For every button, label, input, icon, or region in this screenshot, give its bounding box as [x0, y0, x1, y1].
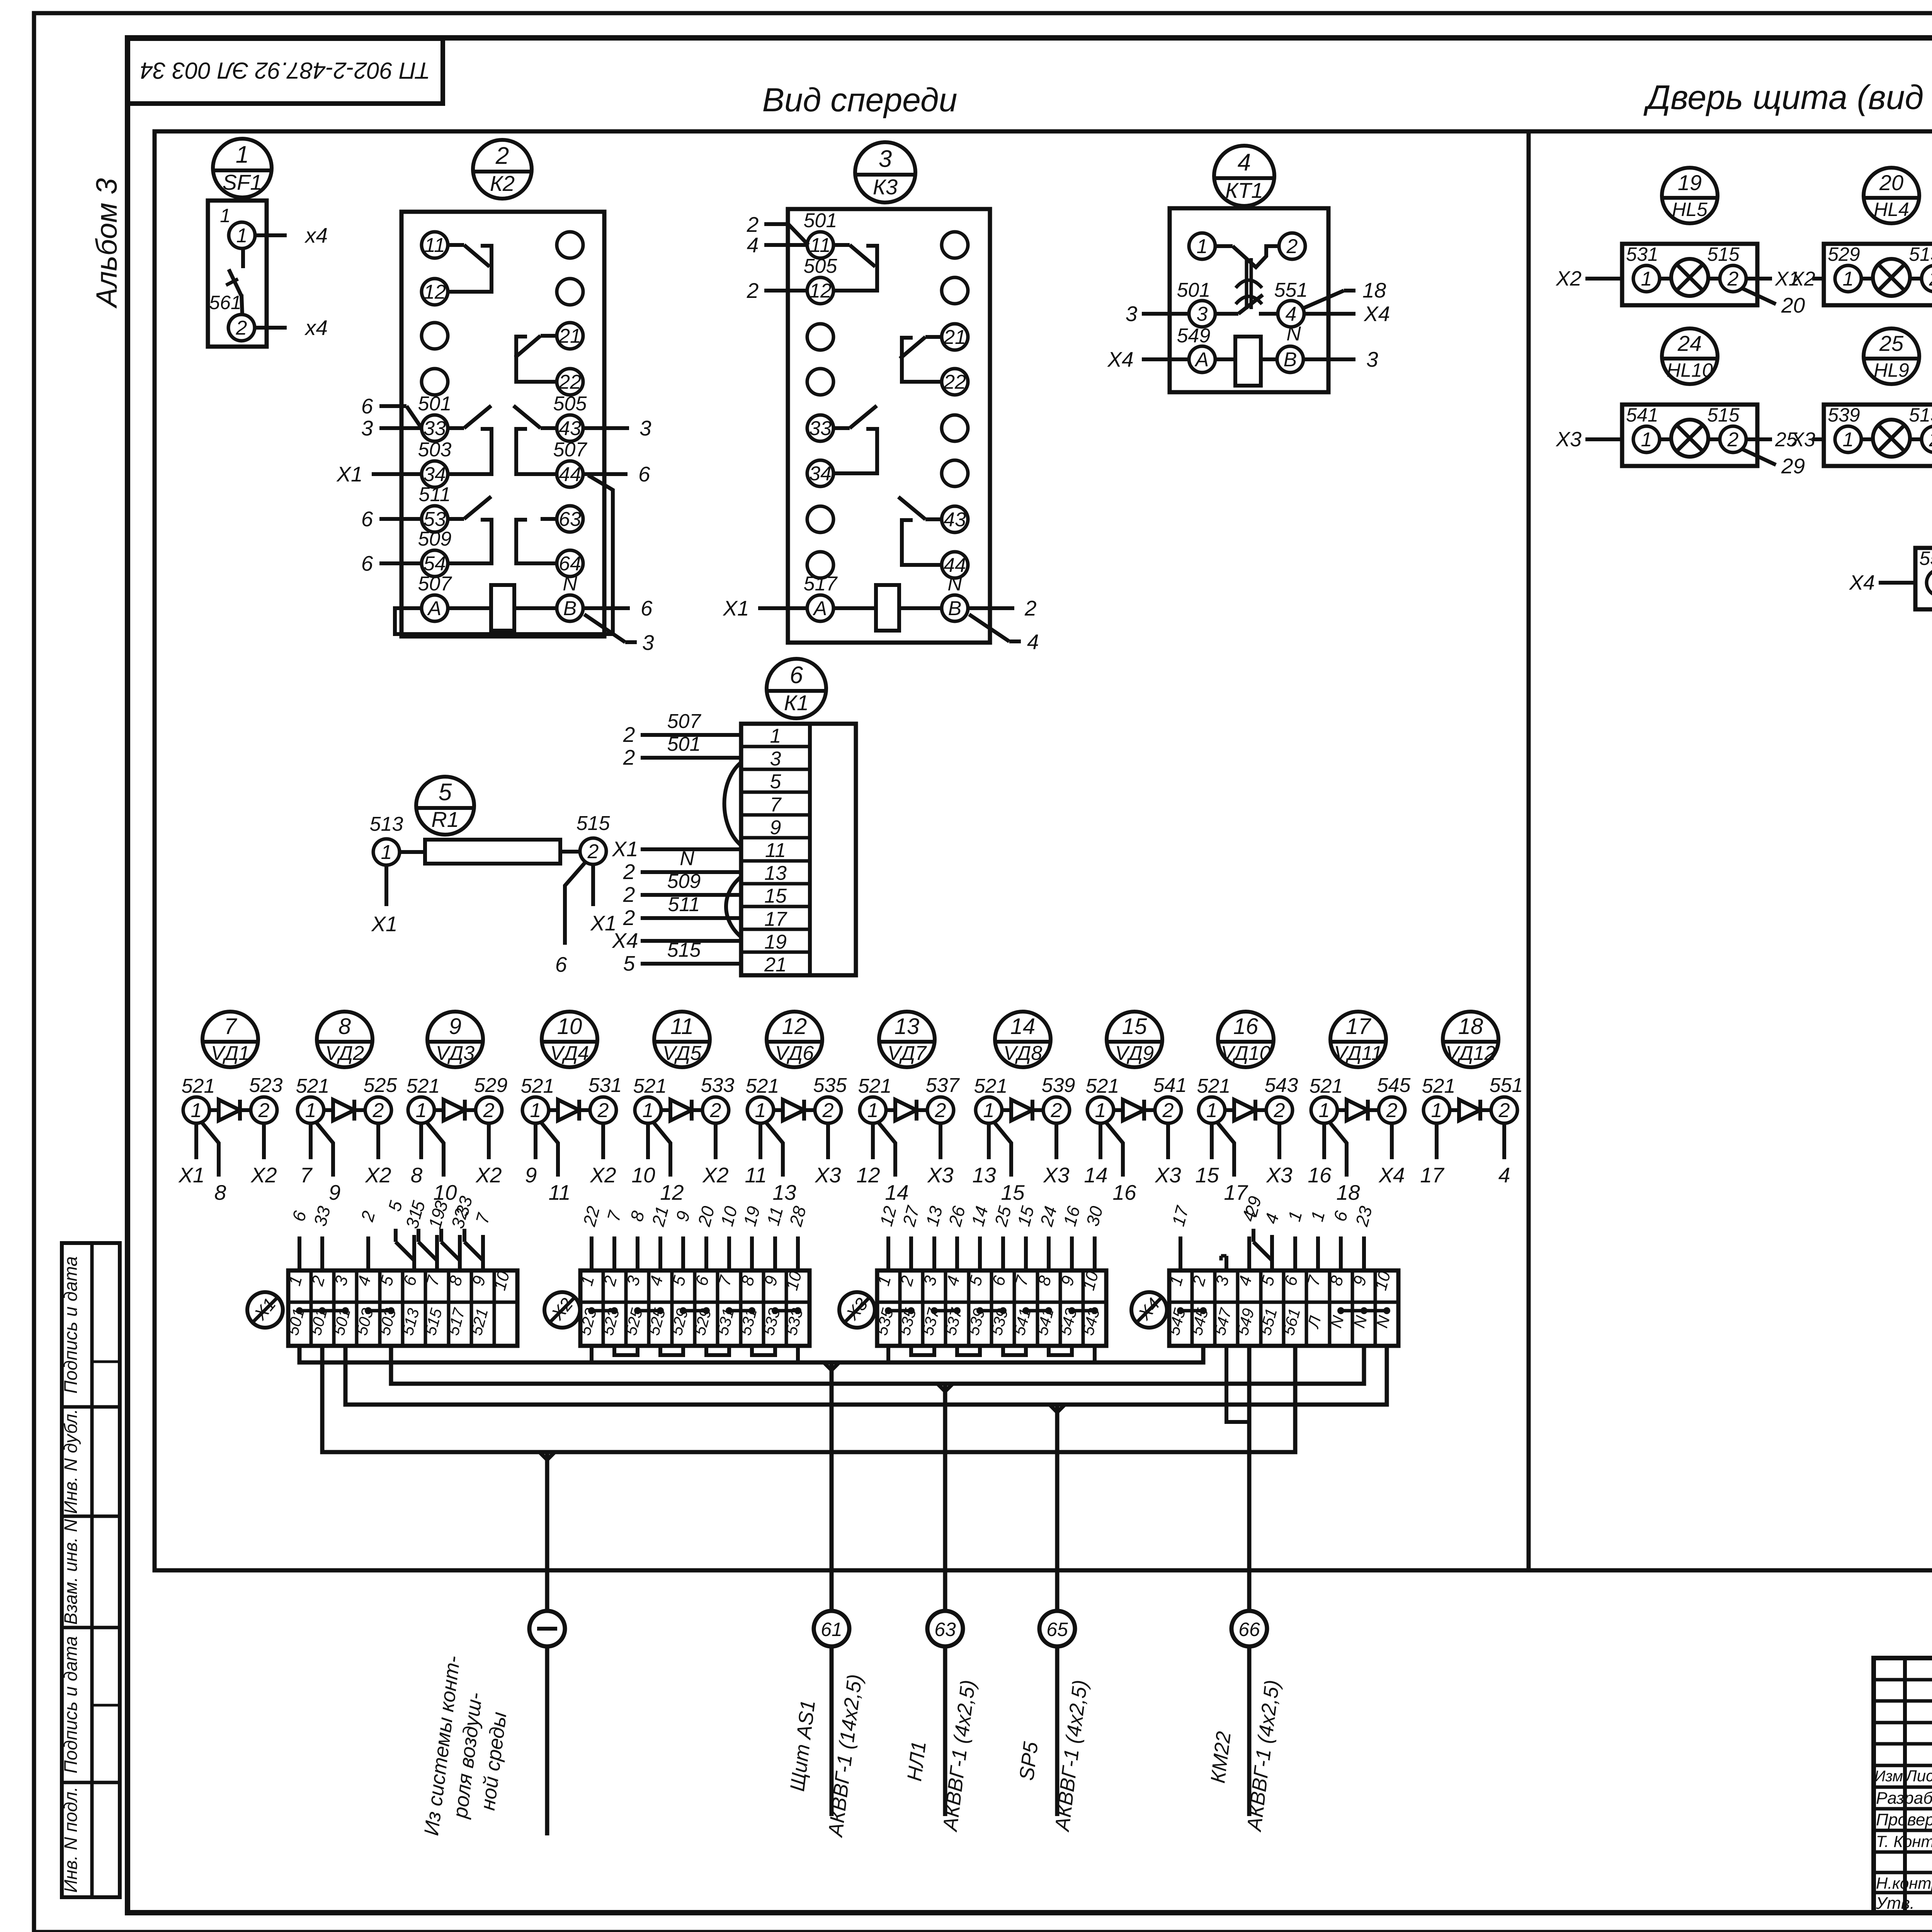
svg-text:Подпись и дата: Подпись и дата — [60, 1256, 81, 1394]
diode VD2 designator circle — [317, 1012, 372, 1067]
diode VD10 designator circle — [1218, 1012, 1274, 1067]
svg-text:521: 521 — [182, 1075, 215, 1097]
svg-text:х4: х4 — [304, 223, 328, 247]
K2 empty terminals right — [557, 232, 583, 258]
diode VD3 terminal 1 — [408, 1097, 434, 1123]
svg-text:А: А — [1194, 349, 1209, 371]
wire from VD7-1 diagonal — [878, 1121, 895, 1177]
wire 20 from lamp HL5 diagonal — [1741, 288, 1776, 304]
K3 terminal 21 — [942, 324, 968, 350]
svg-text:9: 9 — [770, 816, 781, 839]
diode VD11 terminal 1 — [1311, 1097, 1337, 1123]
K3 terminal 33 — [807, 415, 833, 441]
diode VD3 symbol — [434, 1108, 444, 1112]
K2 contact 53-54 — [448, 517, 464, 521]
diode VD6 designator circle — [767, 1012, 822, 1067]
svg-text:501: 501 — [1177, 279, 1211, 301]
svg-text:Х1: Х1 — [371, 912, 397, 936]
diode VD3 terminal 2 — [476, 1097, 502, 1123]
svg-text:2: 2 — [1024, 596, 1037, 620]
svg-text:2: 2 — [623, 906, 635, 930]
K2 coil — [491, 585, 514, 631]
svg-text:Т. Контр.: Т. Контр. — [1876, 1832, 1932, 1850]
wire bus A — [299, 1346, 1203, 1362]
K2 contact 33-34 — [448, 426, 464, 430]
svg-text:521: 521 — [406, 1075, 440, 1097]
drop wire to air-control system cable — [545, 1452, 549, 1611]
wire from VD6-1 down — [759, 1123, 762, 1159]
svg-text:11: 11 — [548, 1180, 570, 1204]
svg-text:521: 521 — [974, 1075, 1008, 1097]
svg-text:43: 43 — [559, 417, 581, 440]
resistor R1 body — [425, 840, 560, 864]
svg-text:543: 543 — [1265, 1074, 1298, 1097]
wire Х4 to lamp HL13 — [1879, 581, 1915, 585]
lamp HL9 terminal 2 — [1922, 426, 1932, 452]
svg-text:1: 1 — [236, 141, 249, 168]
svg-text:525: 525 — [364, 1074, 398, 1097]
K2 contact 21-22 — [541, 334, 557, 338]
cable marker 63 — [927, 1611, 963, 1646]
svg-text:22: 22 — [558, 371, 581, 393]
junction on bus D to air-control cable — [539, 1452, 547, 1460]
wire from VD11-1 diagonal — [1329, 1121, 1347, 1177]
svg-text:Х4: Х4 — [611, 929, 638, 952]
K3 terminal 43 — [942, 506, 968, 532]
wire from VD4-1 diagonal — [540, 1121, 558, 1177]
svg-text:545: 545 — [1377, 1074, 1411, 1097]
svg-text:4: 4 — [1286, 303, 1297, 325]
drop wire to cable 63 — [943, 1384, 947, 1612]
svg-text:515: 515 — [1707, 243, 1740, 265]
svg-text:34: 34 — [809, 463, 832, 485]
relay K2 body — [401, 212, 604, 636]
lamp HL10 terminal 1 — [1633, 426, 1660, 452]
KT1 coil terminal B — [1277, 346, 1303, 372]
svg-text:24: 24 — [1677, 331, 1702, 355]
wire Х3 to lamp HL9 — [1812, 437, 1824, 441]
KT1 terminal 3 — [1189, 301, 1215, 327]
svg-text:Изм: Изм — [1874, 1768, 1903, 1785]
diode VD5 designator circle — [654, 1012, 710, 1067]
diode VD7 terminal 1 — [860, 1097, 886, 1123]
svg-text:Х2: Х2 — [1555, 267, 1582, 290]
wire 6 to K2-54 — [379, 561, 422, 565]
svg-text:R1: R1 — [431, 807, 459, 832]
wire X4 to KT1-A — [1142, 357, 1189, 361]
svg-text:НЛ1: НЛ1 — [903, 1740, 930, 1783]
cable marker 66 — [1231, 1611, 1267, 1646]
diode VD2 symbol — [324, 1108, 333, 1112]
svg-text:2: 2 — [483, 1099, 495, 1122]
svg-text:3: 3 — [1366, 347, 1378, 371]
lamp HL10 designator circle — [1662, 328, 1718, 384]
svg-text:507: 507 — [418, 573, 452, 595]
K2 terminal 54 — [422, 550, 448, 577]
KT1 delayed contact 1-2 — [1215, 244, 1233, 248]
svg-text:29: 29 — [1781, 454, 1805, 478]
svg-text:15: 15 — [1195, 1163, 1219, 1187]
SF1 switch blade — [241, 248, 245, 268]
K3 terminal 44 — [942, 552, 968, 578]
resistor R1 terminal 2 — [580, 838, 606, 864]
wire from VD8-2 down — [1054, 1123, 1058, 1159]
diode VD4 terminal 2 — [590, 1097, 616, 1123]
wire from VD1-1 diagonal — [201, 1121, 219, 1177]
K2 terminal 34 — [422, 461, 448, 487]
diode VD6 terminal 2 — [815, 1097, 841, 1123]
K2 terminal 43 — [557, 415, 583, 441]
svg-text:1: 1 — [1641, 268, 1652, 290]
svg-text:1: 1 — [191, 1099, 202, 1122]
wire from VD7-1 down — [871, 1123, 875, 1159]
terminal block Х3 incoming wires — [886, 1236, 890, 1270]
K3 contact 33-34 — [833, 426, 850, 430]
svg-text:541: 541 — [1153, 1074, 1187, 1097]
svg-text:54: 54 — [423, 553, 446, 575]
svg-text:1: 1 — [1843, 268, 1854, 290]
svg-text:1: 1 — [1641, 429, 1652, 451]
svg-text:2: 2 — [623, 883, 635, 906]
svg-text:17: 17 — [764, 908, 787, 930]
svg-text:22: 22 — [943, 371, 966, 393]
KT1 coil — [1235, 337, 1261, 386]
wire from VD8-1 diagonal — [993, 1121, 1011, 1177]
svg-text:4: 4 — [1498, 1163, 1510, 1187]
drop wire to cable 61 — [830, 1362, 834, 1612]
svg-text:2: 2 — [1286, 235, 1298, 258]
svg-text:Альбом 3: Альбом 3 — [90, 178, 123, 309]
svg-text:Х1: Х1 — [178, 1163, 204, 1187]
svg-text:VД1: VД1 — [211, 1042, 250, 1065]
diode VD9 terminal 1 — [1087, 1097, 1114, 1123]
lamp HL5 body — [1622, 244, 1757, 305]
lamp HL9 bulb symbol — [1873, 420, 1910, 457]
KT1 contact 3-4 — [1215, 312, 1238, 316]
svg-text:VД4: VД4 — [550, 1042, 589, 1065]
wire from VD10-2 down — [1277, 1123, 1281, 1159]
svg-text:12: 12 — [782, 1014, 807, 1039]
svg-text:12: 12 — [660, 1180, 684, 1204]
svg-text:531: 531 — [588, 1074, 622, 1097]
diode VD2 terminal 2 — [365, 1097, 391, 1123]
wire 3 to K2-33 — [379, 426, 422, 430]
svg-text:13: 13 — [772, 1180, 796, 1204]
svg-text:VД7: VД7 — [888, 1042, 927, 1065]
lamp HL13 body — [1915, 548, 1932, 609]
terminal block Х4 body — [1169, 1270, 1398, 1346]
terminal block Х3 designator circle — [839, 1292, 875, 1328]
svg-text:SF1: SF1 — [223, 170, 262, 194]
svg-text:Разраб.: Разраб. — [1876, 1789, 1932, 1808]
K2 terminal 64 — [557, 550, 583, 577]
svg-text:Х2: Х2 — [364, 1163, 391, 1187]
left margin stamp column — [62, 1243, 120, 1897]
K2 terminal 44 — [557, 461, 583, 487]
svg-text:2: 2 — [587, 840, 599, 863]
X2 under-block jumper hooks — [614, 1346, 638, 1355]
svg-text:10: 10 — [557, 1014, 582, 1039]
diode VD10 terminal 1 — [1199, 1097, 1225, 1123]
terminal block Х1 jumpers — [299, 1309, 345, 1313]
svg-text:6: 6 — [638, 462, 650, 486]
wire from VD7-2 down — [939, 1123, 942, 1159]
svg-text:Х3: Х3 — [1555, 428, 1582, 451]
K3 empty terminals left — [807, 324, 833, 350]
svg-text:1: 1 — [220, 205, 231, 226]
diode VD7 designator circle — [879, 1012, 935, 1067]
svg-text:1: 1 — [1319, 1099, 1330, 1122]
diode VD9 designator circle — [1107, 1012, 1162, 1067]
svg-text:10: 10 — [631, 1163, 655, 1187]
wire from VD2-1 down — [309, 1123, 313, 1159]
svg-text:2: 2 — [1727, 268, 1739, 290]
X3 outer cells down to bus A — [886, 1346, 890, 1362]
svg-text:5: 5 — [623, 951, 635, 975]
svg-text:HL5: HL5 — [1672, 199, 1708, 220]
wire 501 into K1 row 3 — [641, 756, 741, 760]
svg-text:Х4: Х4 — [1849, 571, 1875, 594]
svg-text:521: 521 — [858, 1075, 892, 1097]
wire 6 from K2-B — [583, 606, 630, 610]
time relay KT1 designator circle — [1214, 146, 1274, 206]
wire SF1 pin1 to X4 — [255, 233, 287, 237]
wire from VD1-2 down — [262, 1123, 266, 1159]
wire from VD11-1 down — [1322, 1123, 1326, 1159]
svg-text:505: 505 — [804, 255, 838, 277]
svg-text:1: 1 — [530, 1099, 541, 1122]
svg-text:Подпись и дата: Подпись и дата — [60, 1636, 81, 1774]
svg-text:VД2: VД2 — [325, 1042, 364, 1065]
K2 terminal 12 — [422, 279, 448, 305]
lamp HL4 body — [1824, 244, 1932, 305]
svg-text:14: 14 — [1010, 1014, 1036, 1039]
svg-text:501: 501 — [804, 209, 837, 232]
svg-text:3: 3 — [879, 146, 892, 172]
svg-text:539: 539 — [1828, 404, 1860, 426]
svg-text:Х1: Х1 — [611, 837, 638, 861]
svg-text:6: 6 — [641, 596, 653, 620]
svg-text:501: 501 — [667, 733, 701, 755]
svg-text:6: 6 — [790, 662, 803, 689]
svg-text:1: 1 — [1197, 235, 1208, 258]
diode VD9 symbol — [1114, 1108, 1123, 1112]
svg-text:21: 21 — [558, 325, 581, 347]
svg-text:539: 539 — [1042, 1074, 1075, 1097]
svg-text:551: 551 — [1490, 1074, 1523, 1097]
svg-text:523: 523 — [249, 1074, 283, 1097]
lamp HL5 bulb symbol — [1671, 259, 1708, 296]
svg-text:VД3: VД3 — [436, 1042, 474, 1065]
lamp HL10 body — [1622, 405, 1757, 466]
svg-text:515: 515 — [577, 812, 611, 835]
wire 507 into K1 row 1 — [641, 733, 741, 737]
svg-text:1: 1 — [1431, 1099, 1442, 1122]
svg-text:8: 8 — [214, 1180, 226, 1204]
terminal block Х3 body — [877, 1270, 1106, 1346]
svg-text:2: 2 — [710, 1099, 721, 1122]
svg-text:5: 5 — [770, 770, 782, 793]
svg-text:65: 65 — [1046, 1619, 1068, 1640]
resistor R1 terminal 1 — [373, 839, 400, 865]
svg-text:533: 533 — [701, 1074, 735, 1097]
terminal block Х1 designator circle — [247, 1292, 283, 1328]
K3 empty terminals left lower — [807, 506, 833, 532]
svg-text:Лист: Лист — [1905, 1767, 1932, 1785]
svg-text:2: 2 — [935, 1099, 946, 1122]
svg-text:14: 14 — [885, 1180, 908, 1204]
svg-text:2: 2 — [1051, 1099, 1062, 1122]
K2 empty terminals left — [422, 323, 448, 349]
svg-text:521: 521 — [521, 1075, 554, 1097]
wire 6 to K2-33 — [379, 404, 406, 408]
svg-text:2: 2 — [258, 1099, 270, 1122]
svg-text:4: 4 — [1238, 149, 1251, 176]
svg-text:Вид спереди: Вид спереди — [762, 82, 957, 119]
wire R1-1 to X1 — [384, 865, 388, 906]
svg-text:Х3: Х3 — [927, 1163, 954, 1187]
front view panel outline — [155, 131, 1529, 1570]
svg-text:2: 2 — [623, 860, 635, 884]
K2 terminal 63 — [557, 506, 583, 532]
svg-text:20: 20 — [1781, 293, 1805, 317]
svg-text:13: 13 — [895, 1014, 920, 1039]
svg-text:N: N — [1286, 323, 1301, 345]
svg-text:7: 7 — [770, 794, 782, 816]
diode VD7 symbol — [886, 1108, 895, 1112]
wire 6 from R1-2 — [565, 861, 587, 945]
svg-text:6: 6 — [555, 952, 567, 976]
X4 cells 3-4 down loop to cable 66 — [1226, 1346, 1249, 1422]
cable marker: from air control system — [529, 1611, 565, 1646]
svg-text:541: 541 — [1626, 404, 1658, 426]
junction on bus C to cable 65 — [1049, 1405, 1057, 1412]
K2 terminal 21 — [557, 323, 583, 349]
svg-text:21: 21 — [764, 954, 787, 976]
svg-text:8: 8 — [338, 1014, 351, 1039]
svg-text:515: 515 — [1707, 404, 1740, 426]
svg-text:VД11: VД11 — [1334, 1042, 1382, 1065]
svg-text:1: 1 — [983, 1099, 995, 1122]
terminal block Х2 incoming wires — [590, 1236, 594, 1270]
svg-text:Дверь щита (вид со стороны мон: Дверь щита (вид со стороны монтажа) — [1643, 78, 1932, 116]
svg-text:521: 521 — [1197, 1075, 1231, 1097]
K2 coil terminal A — [422, 595, 448, 621]
diode VD4 terminal 1 — [522, 1097, 549, 1123]
svg-text:515: 515 — [1909, 404, 1932, 426]
door view panel outline — [1529, 131, 1932, 1570]
terminal block Х4 jumpers — [1180, 1309, 1203, 1313]
svg-text:7: 7 — [300, 1163, 313, 1187]
K1 jumper bracket rows 3-11 — [724, 762, 742, 845]
svg-text:Инв. N подл.: Инв. N подл. — [60, 1787, 81, 1893]
svg-text:1: 1 — [1095, 1099, 1106, 1122]
K3 empty terminals right mid — [942, 415, 968, 441]
K3 contact 43-44 — [925, 517, 942, 521]
svg-text:33: 33 — [423, 417, 446, 440]
svg-text:15: 15 — [1001, 1180, 1025, 1204]
svg-text:VД12: VД12 — [1446, 1042, 1495, 1065]
wire from VD4-1 down — [534, 1123, 537, 1159]
lamp HL9 terminal 1 — [1835, 426, 1861, 452]
svg-text:53: 53 — [423, 508, 446, 531]
wire X4 from KT1-4 — [1304, 312, 1355, 316]
terminal block Х4 designator circle — [1131, 1292, 1167, 1328]
svg-text:16: 16 — [1308, 1163, 1332, 1187]
svg-text:61: 61 — [821, 1619, 842, 1640]
X3 under-block jumper hooks — [911, 1346, 934, 1355]
wire from VD5-2 down — [714, 1123, 718, 1159]
svg-text:17: 17 — [1420, 1163, 1445, 1187]
wire from VD9-1 diagonal — [1105, 1121, 1123, 1177]
svg-text:537: 537 — [926, 1074, 960, 1097]
svg-text:501: 501 — [418, 393, 452, 415]
svg-text:В: В — [948, 597, 962, 620]
svg-text:1: 1 — [416, 1099, 427, 1122]
K3 terminal 11 — [807, 232, 833, 258]
K2 coil wire loop from A — [395, 475, 613, 634]
K3 contact 21-22 — [925, 335, 942, 339]
K3 terminal 12 — [807, 277, 833, 304]
svg-text:3: 3 — [1197, 303, 1208, 325]
svg-text:1: 1 — [867, 1099, 879, 1122]
diode VD5 terminal 1 — [635, 1097, 661, 1123]
svg-text:2: 2 — [1274, 1099, 1285, 1122]
svg-text:Х2: Х2 — [475, 1163, 502, 1187]
wire 3 from KT1-B — [1303, 357, 1355, 361]
svg-text:2: 2 — [597, 1099, 609, 1122]
title block left columns — [1903, 1658, 1907, 1913]
svg-text:6: 6 — [361, 394, 373, 418]
junction on bus A to cable 61 — [824, 1362, 832, 1370]
svg-text:3: 3 — [642, 631, 654, 655]
svg-text:2: 2 — [1386, 1099, 1398, 1122]
svg-text:9: 9 — [329, 1180, 341, 1204]
wire X1 to K2-34 — [372, 472, 422, 476]
top-left document number box (inverted text) — [128, 39, 443, 104]
svg-text:Х3: Х3 — [1790, 429, 1815, 451]
svg-text:25: 25 — [1879, 331, 1904, 355]
KT1 terminal 1 — [1189, 233, 1215, 259]
KT1 coil terminal A — [1189, 346, 1215, 372]
wire bus C — [345, 1346, 1387, 1405]
relay K3 designator circle — [855, 142, 915, 202]
svg-text:513: 513 — [370, 813, 403, 835]
wire from VD12-1 down — [1435, 1123, 1439, 1159]
svg-text:43: 43 — [944, 509, 966, 531]
svg-text:2: 2 — [747, 279, 759, 303]
svg-text:11: 11 — [810, 234, 831, 257]
svg-text:SP5: SP5 — [1015, 1740, 1043, 1782]
svg-text:ТП 902-2-487.92 ЭЛ 003 34: ТП 902-2-487.92 ЭЛ 003 34 — [140, 58, 430, 83]
diode VD6 symbol — [774, 1108, 783, 1112]
X2 outer cells down to bus A — [590, 1346, 594, 1362]
svg-text:9: 9 — [449, 1014, 461, 1039]
svg-text:Х1: Х1 — [722, 596, 749, 620]
svg-text:549: 549 — [1177, 325, 1211, 347]
svg-text:3: 3 — [361, 416, 373, 440]
svg-text:VД9: VД9 — [1115, 1042, 1154, 1065]
wire from VD3-1 diagonal — [426, 1121, 444, 1177]
svg-text:1: 1 — [236, 224, 248, 247]
relay K2 designator circle — [473, 140, 532, 199]
svg-text:33: 33 — [809, 417, 832, 440]
svg-text:2: 2 — [623, 745, 635, 769]
time relay KT1 body — [1170, 208, 1328, 392]
svg-text:1: 1 — [305, 1099, 316, 1122]
svg-text:А: А — [813, 597, 827, 620]
svg-text:507: 507 — [553, 439, 588, 461]
